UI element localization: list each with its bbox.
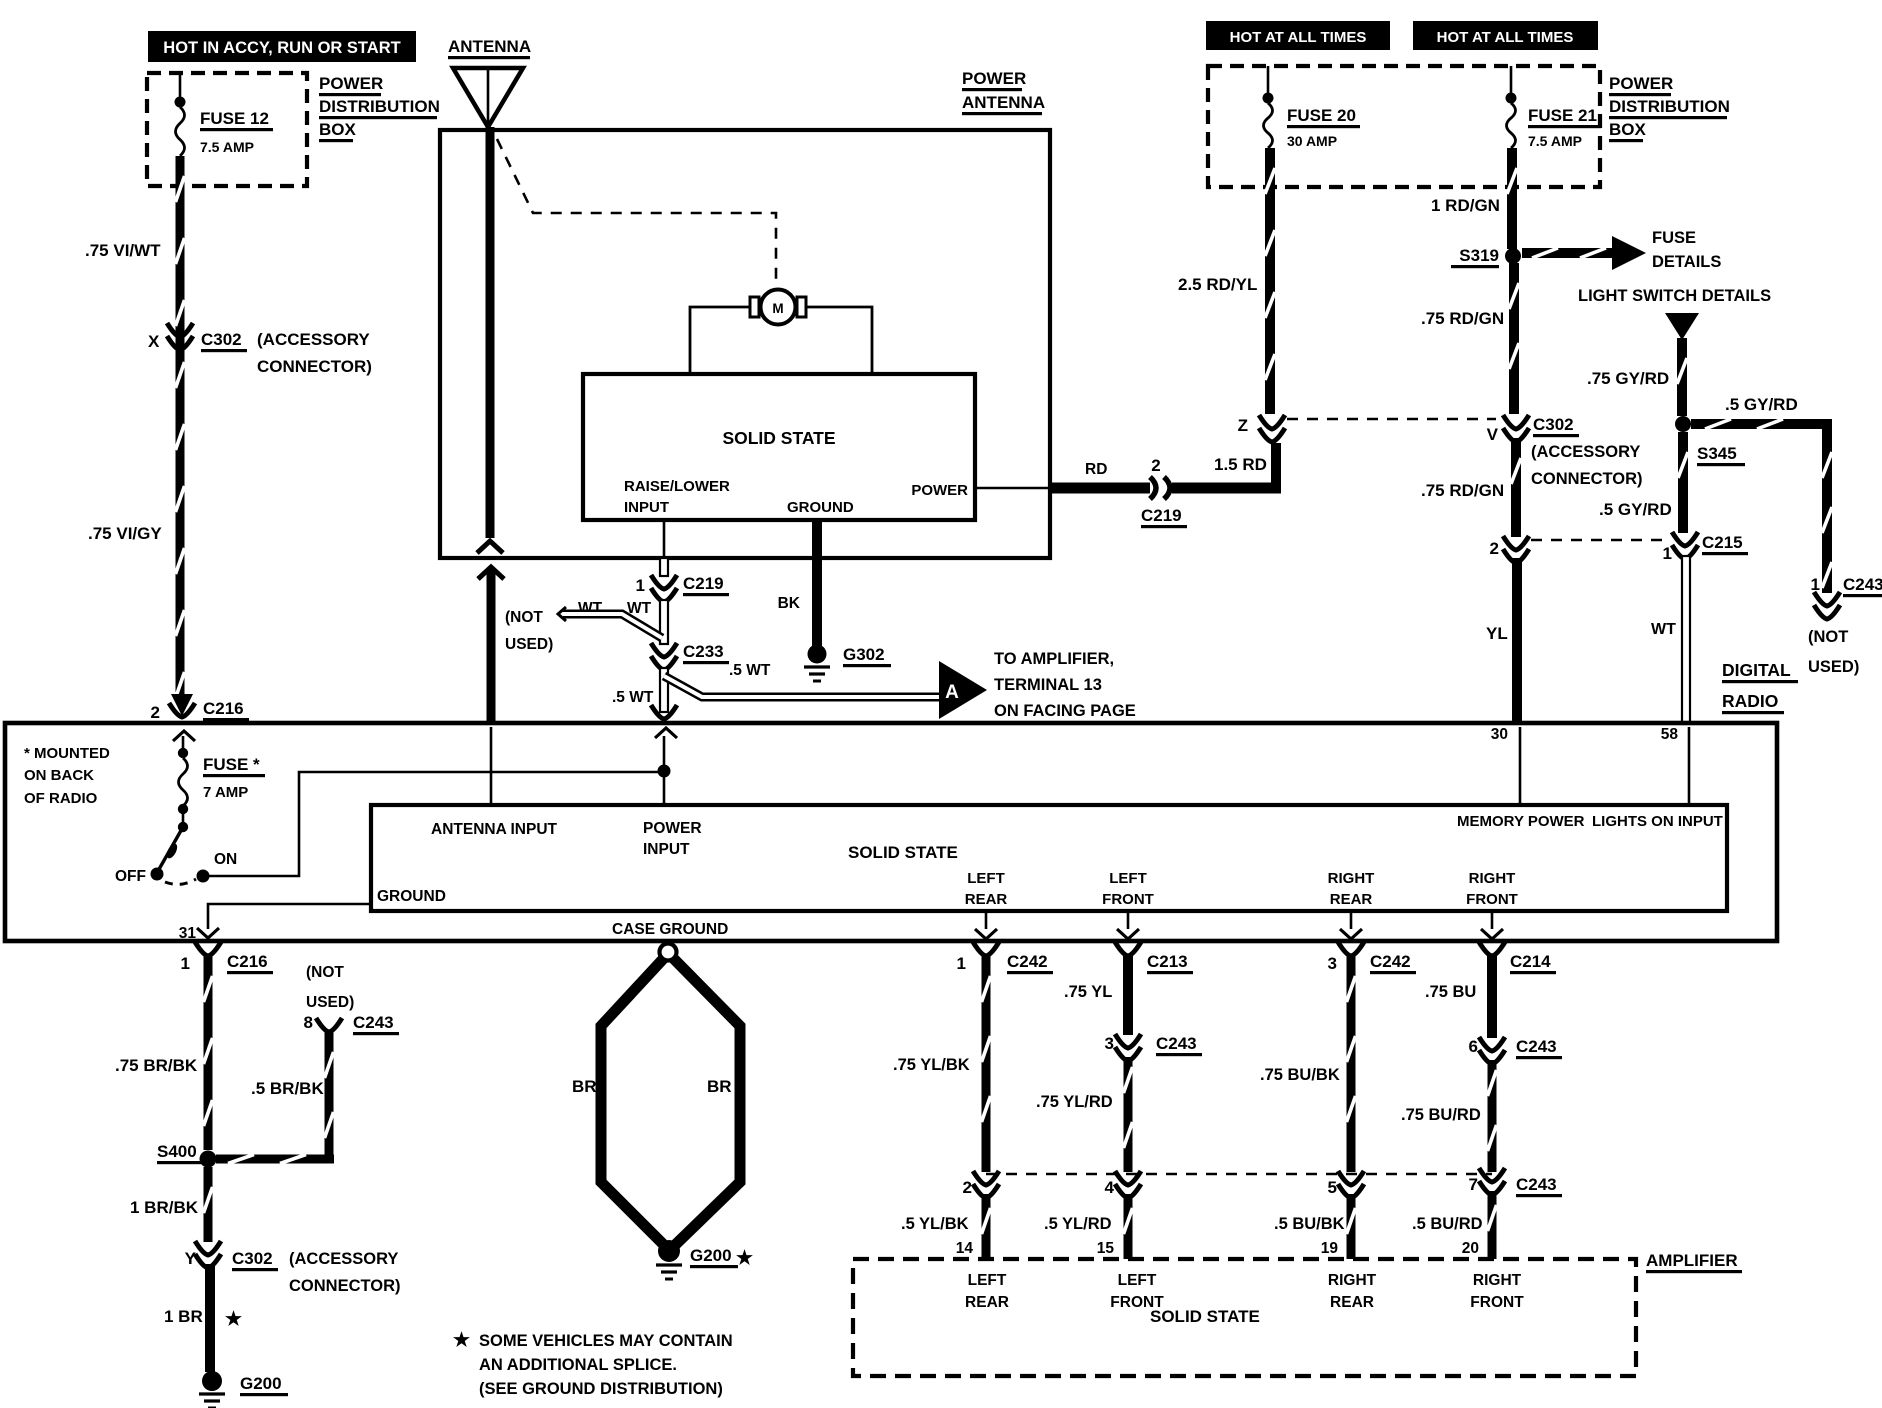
- connector C302 pin Y: [185, 1241, 278, 1271]
- wire power pin to box edge (thin): [975, 487, 1050, 490]
- svg-text:YL: YL: [1486, 624, 1508, 643]
- svg-text:HOT AT ALL TIMES: HOT AT ALL TIMES: [1230, 29, 1367, 46]
- splice S345: [1675, 416, 1745, 466]
- svg-text:C213: C213: [1147, 952, 1188, 971]
- svg-text:.75 RD/GN: .75 RD/GN: [1421, 309, 1504, 328]
- motor M (power antenna): [750, 290, 806, 325]
- wire .75 VI/WT from fuse 12 to C302 pin X: [176, 156, 185, 703]
- connector C233: [651, 642, 729, 670]
- svg-text:LEFT: LEFT: [968, 1272, 1007, 1289]
- label (ACCESSORY CONNECTOR): [257, 330, 372, 376]
- svg-text:USED): USED): [306, 994, 354, 1011]
- svg-text:4: 4: [1105, 1178, 1115, 1197]
- power distribution box (right, dashed): [1208, 66, 1600, 187]
- connector C215 pin 1: [1663, 532, 1748, 563]
- svg-text:.75 GY/RD: .75 GY/RD: [1587, 369, 1669, 388]
- svg-text:AN ADDITIONAL SPLICE.: AN ADDITIONAL SPLICE.: [479, 1356, 677, 1374]
- svg-text:.75 BR/BK: .75 BR/BK: [115, 1056, 198, 1075]
- svg-text:CASE GROUND: CASE GROUND: [612, 921, 728, 938]
- wire antenna input to inner box: [490, 727, 493, 805]
- connector C216 pin 2 at radio top: [151, 694, 249, 722]
- svg-text:FUSE 21: FUSE 21: [1528, 106, 1597, 125]
- svg-text:.75 VI/GY: .75 VI/GY: [88, 524, 162, 543]
- svg-text:C216: C216: [203, 699, 244, 718]
- svg-text:15: 15: [1097, 1240, 1115, 1257]
- svg-text:1: 1: [1663, 544, 1672, 563]
- svg-text:5: 5: [1328, 1178, 1337, 1197]
- wire .75 YL C213 to C243-3: [1123, 956, 1133, 1035]
- case ground junction (open circle): [660, 944, 677, 961]
- svg-text:LEFT: LEFT: [1109, 870, 1147, 887]
- svg-text:RIGHT: RIGHT: [1328, 870, 1375, 887]
- svg-text:RIGHT: RIGHT: [1469, 870, 1516, 887]
- svg-text:USED): USED): [505, 636, 553, 653]
- svg-text:1: 1: [1811, 575, 1820, 594]
- svg-text:BOX: BOX: [1609, 120, 1647, 139]
- svg-text:BR: BR: [572, 1077, 597, 1096]
- label (NOT USED) right: [1808, 628, 1859, 676]
- svg-text:6: 6: [1469, 1037, 1478, 1056]
- wire 1 BR/BK S400 to C302-Y: [204, 1167, 213, 1242]
- svg-text:.75 RD/GN: .75 RD/GN: [1421, 481, 1504, 500]
- svg-text:.75 YL: .75 YL: [1064, 983, 1112, 1001]
- svg-text:G200: G200: [690, 1246, 732, 1265]
- connector C214: [1479, 942, 1556, 974]
- label DIGITAL RADIO: [1722, 660, 1798, 714]
- svg-text:C233: C233: [683, 642, 724, 661]
- connector C219 pin 1: [636, 574, 729, 602]
- wire WT from C215-1 to radio pin 58 (hollow): [1682, 556, 1690, 723]
- svg-text:.75 YL/RD: .75 YL/RD: [1036, 1093, 1113, 1111]
- svg-text:SOLID STATE: SOLID STATE: [722, 428, 835, 448]
- connector C243 pin 3: [1105, 1034, 1202, 1061]
- svg-text:ON BACK: ON BACK: [24, 767, 94, 784]
- antenna lead wire (inside power antenna box): [477, 127, 503, 553]
- connector C302 pin X (accessory connector): [148, 323, 247, 352]
- svg-text:(SEE GROUND DISTRIBUTION): (SEE GROUND DISTRIBUTION): [479, 1380, 723, 1398]
- svg-text:LEFT: LEFT: [1118, 1272, 1157, 1289]
- svg-text:2: 2: [1490, 539, 1499, 558]
- dashed connector link 2 to C215-1: [1531, 539, 1668, 542]
- svg-text:.75 BU/RD: .75 BU/RD: [1401, 1106, 1481, 1124]
- solid state module (power antenna) U-ant: [583, 374, 975, 520]
- svg-text:LIGHTS ON INPUT: LIGHTS ON INPUT: [1592, 813, 1723, 830]
- wire .75 BR/BK C216 to S400: [204, 956, 213, 1150]
- svg-text:DIGITAL: DIGITAL: [1722, 660, 1791, 680]
- svg-text:WT: WT: [1651, 621, 1676, 638]
- svg-text:C243: C243: [1516, 1175, 1557, 1194]
- connector C243 pin 2: [963, 1171, 999, 1198]
- svg-text:C216: C216: [227, 952, 268, 971]
- connector C302 pin Z: [1238, 415, 1285, 442]
- label RIGHT FRONT (radio): [1466, 870, 1518, 908]
- connector C243 pin 6: [1469, 1037, 1562, 1064]
- svg-text:FRONT: FRONT: [1470, 1294, 1524, 1311]
- svg-text:RAISE/LOWER: RAISE/LOWER: [624, 478, 730, 495]
- svg-text:REAR: REAR: [965, 1294, 1009, 1311]
- wire BR case ground loop (right side): [673, 958, 740, 1247]
- wire .5 BU/BK to amplifier pin 19: [1347, 1194, 1356, 1259]
- svg-text:(ACCESSORY: (ACCESSORY: [257, 330, 370, 349]
- connector C243 pin 5: [1328, 1171, 1364, 1198]
- label LEFT FRONT (amplifier): [1110, 1272, 1164, 1311]
- label POWER DISTRIBUTION BOX (left): [319, 74, 440, 142]
- wire 1 RD/GN fuse 21 to S319: [1507, 148, 1517, 249]
- svg-text:X: X: [148, 332, 160, 351]
- svg-text:1: 1: [181, 954, 190, 973]
- svg-text:.5 YL/RD: .5 YL/RD: [1044, 1215, 1112, 1233]
- svg-text:LEFT: LEFT: [967, 870, 1005, 887]
- fuse F20 FUSE 20 30 AMP: [1263, 66, 1361, 149]
- connector at radio power input (cup at box edge): [651, 705, 677, 738]
- wire .5 YL/RD to amplifier pin 15: [1124, 1194, 1133, 1259]
- svg-text:REAR: REAR: [1330, 891, 1373, 908]
- fuse F12 FUSE 12 7.5 AMP: [175, 73, 274, 156]
- antenna lead wire below power antenna box to radio: [478, 567, 504, 723]
- svg-text:REAR: REAR: [1330, 1294, 1374, 1311]
- svg-text:★: ★: [453, 1330, 470, 1351]
- svg-text:1: 1: [957, 954, 966, 973]
- svg-text:1 BR: 1 BR: [164, 1307, 203, 1326]
- svg-text:RD: RD: [1085, 461, 1107, 478]
- svg-text:BOX: BOX: [319, 120, 357, 139]
- svg-text:ANTENNA INPUT: ANTENNA INPUT: [431, 821, 558, 838]
- svg-text:7 AMP: 7 AMP: [203, 784, 248, 801]
- power label HOT IN ACCY, RUN OR START: [148, 31, 416, 62]
- speaker pin RIGHT REAR: [1350, 911, 1353, 929]
- connector C243 pin 7: [1469, 1168, 1562, 1197]
- ground G200 (case ground): [656, 1240, 753, 1279]
- svg-text:.5 BU/BK: .5 BU/BK: [1274, 1215, 1345, 1233]
- svg-text:A: A: [945, 682, 959, 703]
- wire 1 BR C302-Y to G200: [205, 1264, 215, 1372]
- svg-text:V: V: [1487, 425, 1499, 444]
- svg-text:.75 BU/BK: .75 BU/BK: [1260, 1066, 1340, 1084]
- off-page arrow A to amplifier terminal 13: [939, 661, 987, 719]
- svg-text:SOME VEHICLES MAY CONTAIN: SOME VEHICLES MAY CONTAIN: [479, 1332, 733, 1350]
- wire .75 RD/GN from S319 to V: [1509, 263, 1519, 414]
- svg-text:C302: C302: [1533, 415, 1574, 434]
- wire BR case ground loop (left side): [601, 958, 666, 1247]
- svg-text:INPUT: INPUT: [643, 841, 690, 858]
- wire 1.5 RD from C219 to Z: [1172, 443, 1281, 494]
- svg-text:30 AMP: 30 AMP: [1287, 133, 1337, 149]
- connector C216 pin 1 below radio: [181, 942, 273, 974]
- wire RD power antenna feed (solid): [1048, 483, 1150, 494]
- label RIGHT REAR (radio): [1328, 870, 1375, 908]
- label 1 BR and splice star: [164, 1307, 242, 1330]
- svg-text:G302: G302: [843, 645, 885, 664]
- svg-text:BR: BR: [707, 1077, 732, 1096]
- wire WT raise/lower (hollow) above C219: [660, 558, 668, 576]
- svg-text:TERMINAL 13: TERMINAL 13: [994, 676, 1102, 694]
- wire .5 BU/RD to amplifier pin 20: [1488, 1191, 1497, 1259]
- antenna symbol: [448, 37, 531, 127]
- svg-text:C242: C242: [1007, 952, 1048, 971]
- wire .5 WT branch to amplifier arrow A: [664, 676, 941, 697]
- label TO AMPLIFIER, TERMINAL 13 ON FACING PAGE: [994, 650, 1136, 720]
- wire .75 RD/GN V to C302 pin 2: [1511, 438, 1521, 537]
- connector C242 pin 1: [957, 942, 1053, 974]
- wire BK ground from solid state to G302: [812, 520, 822, 646]
- svg-text:FRONT: FRONT: [1102, 891, 1154, 908]
- svg-text:C219: C219: [1141, 506, 1182, 525]
- svg-text:C215: C215: [1702, 533, 1743, 552]
- svg-text:FUSE *: FUSE *: [203, 755, 260, 774]
- label POWER ANTENNA: [962, 69, 1045, 115]
- wire raise/lower input pin down to C219: [663, 520, 666, 560]
- svg-text:8: 8: [304, 1013, 313, 1032]
- splice S319: [1451, 246, 1521, 268]
- wire motor left terminal to solid state: [690, 307, 750, 374]
- stub (NOT USED) WT wire: [558, 607, 662, 638]
- svg-text:ANTENNA: ANTENNA: [962, 93, 1045, 112]
- note SOME VEHICLES MAY CONTAIN AN ADDITIONAL SPLICE: [453, 1330, 733, 1398]
- fuse F21 FUSE 21 7.5 AMP: [1506, 66, 1602, 149]
- label LEFT REAR (amplifier): [965, 1272, 1009, 1311]
- label RIGHT REAR (amplifier): [1328, 1272, 1377, 1311]
- off-page triangle from light switch: [1665, 313, 1699, 340]
- connector C302 pin V: [1487, 415, 1579, 444]
- svg-text:7.5 AMP: 7.5 AMP: [200, 139, 254, 155]
- wire .75 YL/RD C243-3 to C243-4: [1124, 1057, 1133, 1172]
- svg-text:OF RADIO: OF RADIO: [24, 790, 98, 807]
- svg-text:FUSE: FUSE: [1652, 229, 1696, 247]
- label POWER INPUT: [643, 820, 702, 858]
- connector C243 pin 8 (not used): [304, 1013, 399, 1035]
- svg-text:2: 2: [1151, 456, 1160, 475]
- label (ACCESSORY CONNECTOR) bottom: [289, 1250, 401, 1295]
- digital radio outer case box: [5, 723, 1777, 941]
- svg-text:.5 WT: .5 WT: [729, 662, 771, 679]
- svg-text:CONNECTOR): CONNECTOR): [289, 1277, 401, 1295]
- radio on/off switch: [115, 827, 237, 885]
- svg-text:HOT AT ALL TIMES: HOT AT ALL TIMES: [1437, 29, 1574, 46]
- svg-text:.5 GY/RD: .5 GY/RD: [1725, 395, 1798, 414]
- svg-text:★: ★: [225, 1309, 242, 1330]
- svg-text:BK: BK: [778, 595, 801, 612]
- svg-text:★: ★: [736, 1248, 753, 1269]
- svg-text:POWER: POWER: [962, 69, 1026, 88]
- svg-text:POWER: POWER: [911, 482, 968, 499]
- svg-text:REAR: REAR: [965, 891, 1008, 908]
- dashed connector link Z to V: [1287, 418, 1496, 421]
- svg-text:MEMORY POWER: MEMORY POWER: [1457, 813, 1585, 830]
- svg-text:19: 19: [1321, 1240, 1339, 1257]
- svg-text:1: 1: [636, 576, 645, 595]
- wire from ON contact to power input node: [209, 772, 664, 876]
- junction at power input: [658, 765, 671, 778]
- svg-text:C242: C242: [1370, 952, 1411, 971]
- svg-text:CONNECTOR): CONNECTOR): [1531, 470, 1643, 488]
- wire .75 BU/RD C243-6 to C243-7: [1488, 1060, 1497, 1172]
- wire .75 GY/RD light switch to S345: [1677, 338, 1687, 416]
- wire .5 GY/RD from S345 right and down to C243: [1691, 419, 1832, 593]
- svg-text:30: 30: [1491, 726, 1508, 743]
- svg-text:RIGHT: RIGHT: [1328, 1272, 1377, 1289]
- svg-text:(NOT: (NOT: [306, 964, 344, 981]
- svg-text:Y: Y: [185, 1249, 197, 1268]
- svg-text:20: 20: [1462, 1240, 1479, 1257]
- radio internal solid state box: [371, 805, 1727, 911]
- wire YL from C302-2 to radio pin 30: [1512, 558, 1522, 723]
- connector C219 pin 2 (power feed): [1141, 456, 1187, 528]
- svg-text:.75 VI/WT: .75 VI/WT: [85, 241, 161, 260]
- svg-text:C214: C214: [1510, 952, 1551, 971]
- svg-text:.5 YL/BK: .5 YL/BK: [901, 1215, 969, 1233]
- wire .5 GY/RD from S345 down to C215: [1678, 432, 1688, 533]
- svg-text:HOT IN ACCY, RUN OR START: HOT IN ACCY, RUN OR START: [163, 39, 400, 57]
- svg-text:DETAILS: DETAILS: [1652, 253, 1721, 271]
- power distribution box (left, dashed): [147, 73, 307, 186]
- wire .75 BU C214 to C243-6: [1487, 956, 1497, 1038]
- svg-text:* MOUNTED: * MOUNTED: [24, 745, 110, 762]
- wire .75 BU/BK C242-3 to C243-5: [1347, 956, 1356, 1172]
- svg-text:.5 BU/RD: .5 BU/RD: [1412, 1215, 1483, 1233]
- svg-text:.5 BR/BK: .5 BR/BK: [251, 1079, 324, 1098]
- connector C213: [1115, 942, 1193, 974]
- svg-text:CONNECTOR): CONNECTOR): [257, 357, 372, 376]
- svg-text:ON FACING PAGE: ON FACING PAGE: [994, 702, 1136, 720]
- wire .75 YL/BK C242 to C243-2: [982, 956, 991, 1172]
- label RIGHT FRONT (amplifier): [1470, 1272, 1524, 1311]
- svg-text:7: 7: [1469, 1175, 1478, 1194]
- svg-text:1.5 RD: 1.5 RD: [1214, 455, 1267, 474]
- wire to fuse details (striped arrow): [1522, 236, 1646, 270]
- power label HOT AT ALL TIMES (fuse 20): [1206, 21, 1390, 50]
- svg-text:DISTRIBUTION: DISTRIBUTION: [319, 97, 440, 116]
- svg-text:ON: ON: [214, 851, 237, 868]
- svg-text:FUSE 12: FUSE 12: [200, 109, 269, 128]
- wire power input node to inner box: [663, 736, 666, 805]
- svg-text:GROUND: GROUND: [377, 888, 446, 905]
- svg-text:(NOT: (NOT: [505, 609, 543, 626]
- label LEFT FRONT (radio): [1102, 870, 1154, 908]
- label LEFT REAR (radio): [965, 870, 1008, 908]
- svg-text:(NOT: (NOT: [1808, 628, 1848, 646]
- dashed drive link from antenna mast to motor: [497, 139, 776, 284]
- speaker pin LEFT REAR: [985, 911, 988, 929]
- connector C243 pin 1 (not used): [1811, 575, 1882, 619]
- svg-text:POWER: POWER: [1609, 74, 1673, 93]
- speaker pin LEFT FRONT: [1127, 911, 1130, 929]
- svg-text:RIGHT: RIGHT: [1473, 1272, 1522, 1289]
- svg-text:GROUND: GROUND: [787, 499, 854, 516]
- svg-text:C243: C243: [1156, 1034, 1197, 1053]
- svg-text:OFF: OFF: [115, 868, 146, 885]
- dashed connector link C243 pins 2-4-5-7: [986, 1173, 1492, 1176]
- svg-text:INPUT: INPUT: [624, 499, 669, 516]
- power label HOT AT ALL TIMES (fuse 21): [1413, 21, 1598, 50]
- wire .5 YL/BK to amplifier pin 14: [982, 1194, 991, 1259]
- svg-text:ANTENNA: ANTENNA: [448, 37, 531, 56]
- svg-text:C219: C219: [683, 574, 724, 593]
- connector C302 pin 2: [1490, 536, 1529, 563]
- svg-text:2: 2: [151, 703, 160, 722]
- svg-text:LIGHT SWITCH DETAILS: LIGHT SWITCH DETAILS: [1578, 287, 1771, 305]
- svg-text:3: 3: [1328, 954, 1337, 973]
- power antenna box: [440, 130, 1050, 558]
- svg-text:POWER: POWER: [643, 820, 702, 837]
- wire WT between C219 and C233 (hollow): [660, 600, 668, 644]
- svg-text:1 RD/GN: 1 RD/GN: [1431, 196, 1500, 215]
- wire radio ground to pin 31: [208, 904, 371, 929]
- svg-text:S345: S345: [1697, 444, 1737, 463]
- svg-text:31: 31: [179, 925, 197, 942]
- svg-text:14: 14: [956, 1240, 974, 1257]
- labels WT WT: [578, 600, 652, 617]
- svg-text:Z: Z: [1238, 416, 1248, 435]
- svg-text:RADIO: RADIO: [1722, 691, 1778, 711]
- pin 31 arrow at radio case: [179, 925, 219, 942]
- svg-text:G200: G200: [240, 1374, 282, 1393]
- ground G200 (left): [199, 1371, 288, 1408]
- connector C243 pin 4: [1105, 1171, 1141, 1198]
- svg-text:.75 YL/BK: .75 YL/BK: [893, 1056, 970, 1074]
- svg-text:DISTRIBUTION: DISTRIBUTION: [1609, 97, 1730, 116]
- svg-text:M: M: [772, 301, 783, 316]
- svg-text:3: 3: [1105, 1034, 1114, 1053]
- svg-text:.75 BU: .75 BU: [1425, 983, 1476, 1001]
- ground G302: [804, 645, 891, 682]
- radio fuse FUSE* 7 AMP: [173, 731, 265, 832]
- svg-text:2.5 RD/YL: 2.5 RD/YL: [1178, 275, 1257, 294]
- svg-text:SOLID STATE: SOLID STATE: [1150, 1307, 1260, 1326]
- svg-text:TO AMPLIFIER,: TO AMPLIFIER,: [994, 650, 1114, 668]
- wire .5 WT below C233 (hollow): [660, 668, 668, 712]
- svg-text:7.5 AMP: 7.5 AMP: [1528, 133, 1582, 149]
- svg-text:.5 GY/RD: .5 GY/RD: [1599, 500, 1672, 519]
- svg-text:.5 WT: .5 WT: [612, 689, 654, 706]
- wire 2.5 RD/YL from fuse 20 to Z: [1265, 148, 1275, 414]
- svg-text:FRONT: FRONT: [1466, 891, 1518, 908]
- label (ACCESSORY CONNECTOR) right: [1531, 443, 1643, 488]
- svg-text:1 BR/BK: 1 BR/BK: [130, 1198, 199, 1217]
- wire motor right terminal to solid state: [806, 307, 872, 374]
- svg-text:2: 2: [963, 1178, 972, 1197]
- label FUSE DETAILS: [1652, 229, 1721, 271]
- svg-text:POWER: POWER: [319, 74, 383, 93]
- wire .5 BR/BK C243-8 to S400: [216, 1032, 334, 1164]
- label POWER DISTRIBUTION BOX (right): [1609, 74, 1730, 142]
- pin 58 lead inside radio: [1688, 727, 1691, 805]
- svg-text:C302: C302: [201, 330, 242, 349]
- label (NOT USED) at C243-8: [306, 964, 354, 1011]
- svg-text:S319: S319: [1459, 246, 1499, 265]
- svg-text:(ACCESSORY: (ACCESSORY: [1531, 443, 1640, 461]
- svg-text:C243: C243: [1516, 1037, 1557, 1056]
- pin 30 lead inside radio: [1519, 727, 1522, 805]
- svg-text:C302: C302: [232, 1249, 273, 1268]
- splice S400: [157, 1142, 217, 1168]
- svg-text:FUSE 20: FUSE 20: [1287, 106, 1356, 125]
- svg-text:(ACCESSORY: (ACCESSORY: [289, 1250, 398, 1268]
- label (NOT USED) at C233 stub: [505, 609, 553, 653]
- svg-text:C243: C243: [1843, 575, 1882, 594]
- amplifier box (dashed): [853, 1259, 1636, 1376]
- svg-text:USED): USED): [1808, 658, 1859, 676]
- svg-text:SOLID STATE: SOLID STATE: [848, 843, 958, 862]
- svg-text:58: 58: [1661, 726, 1679, 743]
- connector C242 pin 3: [1328, 942, 1416, 974]
- svg-text:C243: C243: [353, 1013, 394, 1032]
- label * MOUNTED ON BACK OF RADIO: [24, 745, 110, 807]
- svg-text:AMPLIFIER: AMPLIFIER: [1646, 1251, 1738, 1270]
- svg-text:S400: S400: [157, 1142, 197, 1161]
- speaker pin RIGHT FRONT: [1491, 911, 1494, 929]
